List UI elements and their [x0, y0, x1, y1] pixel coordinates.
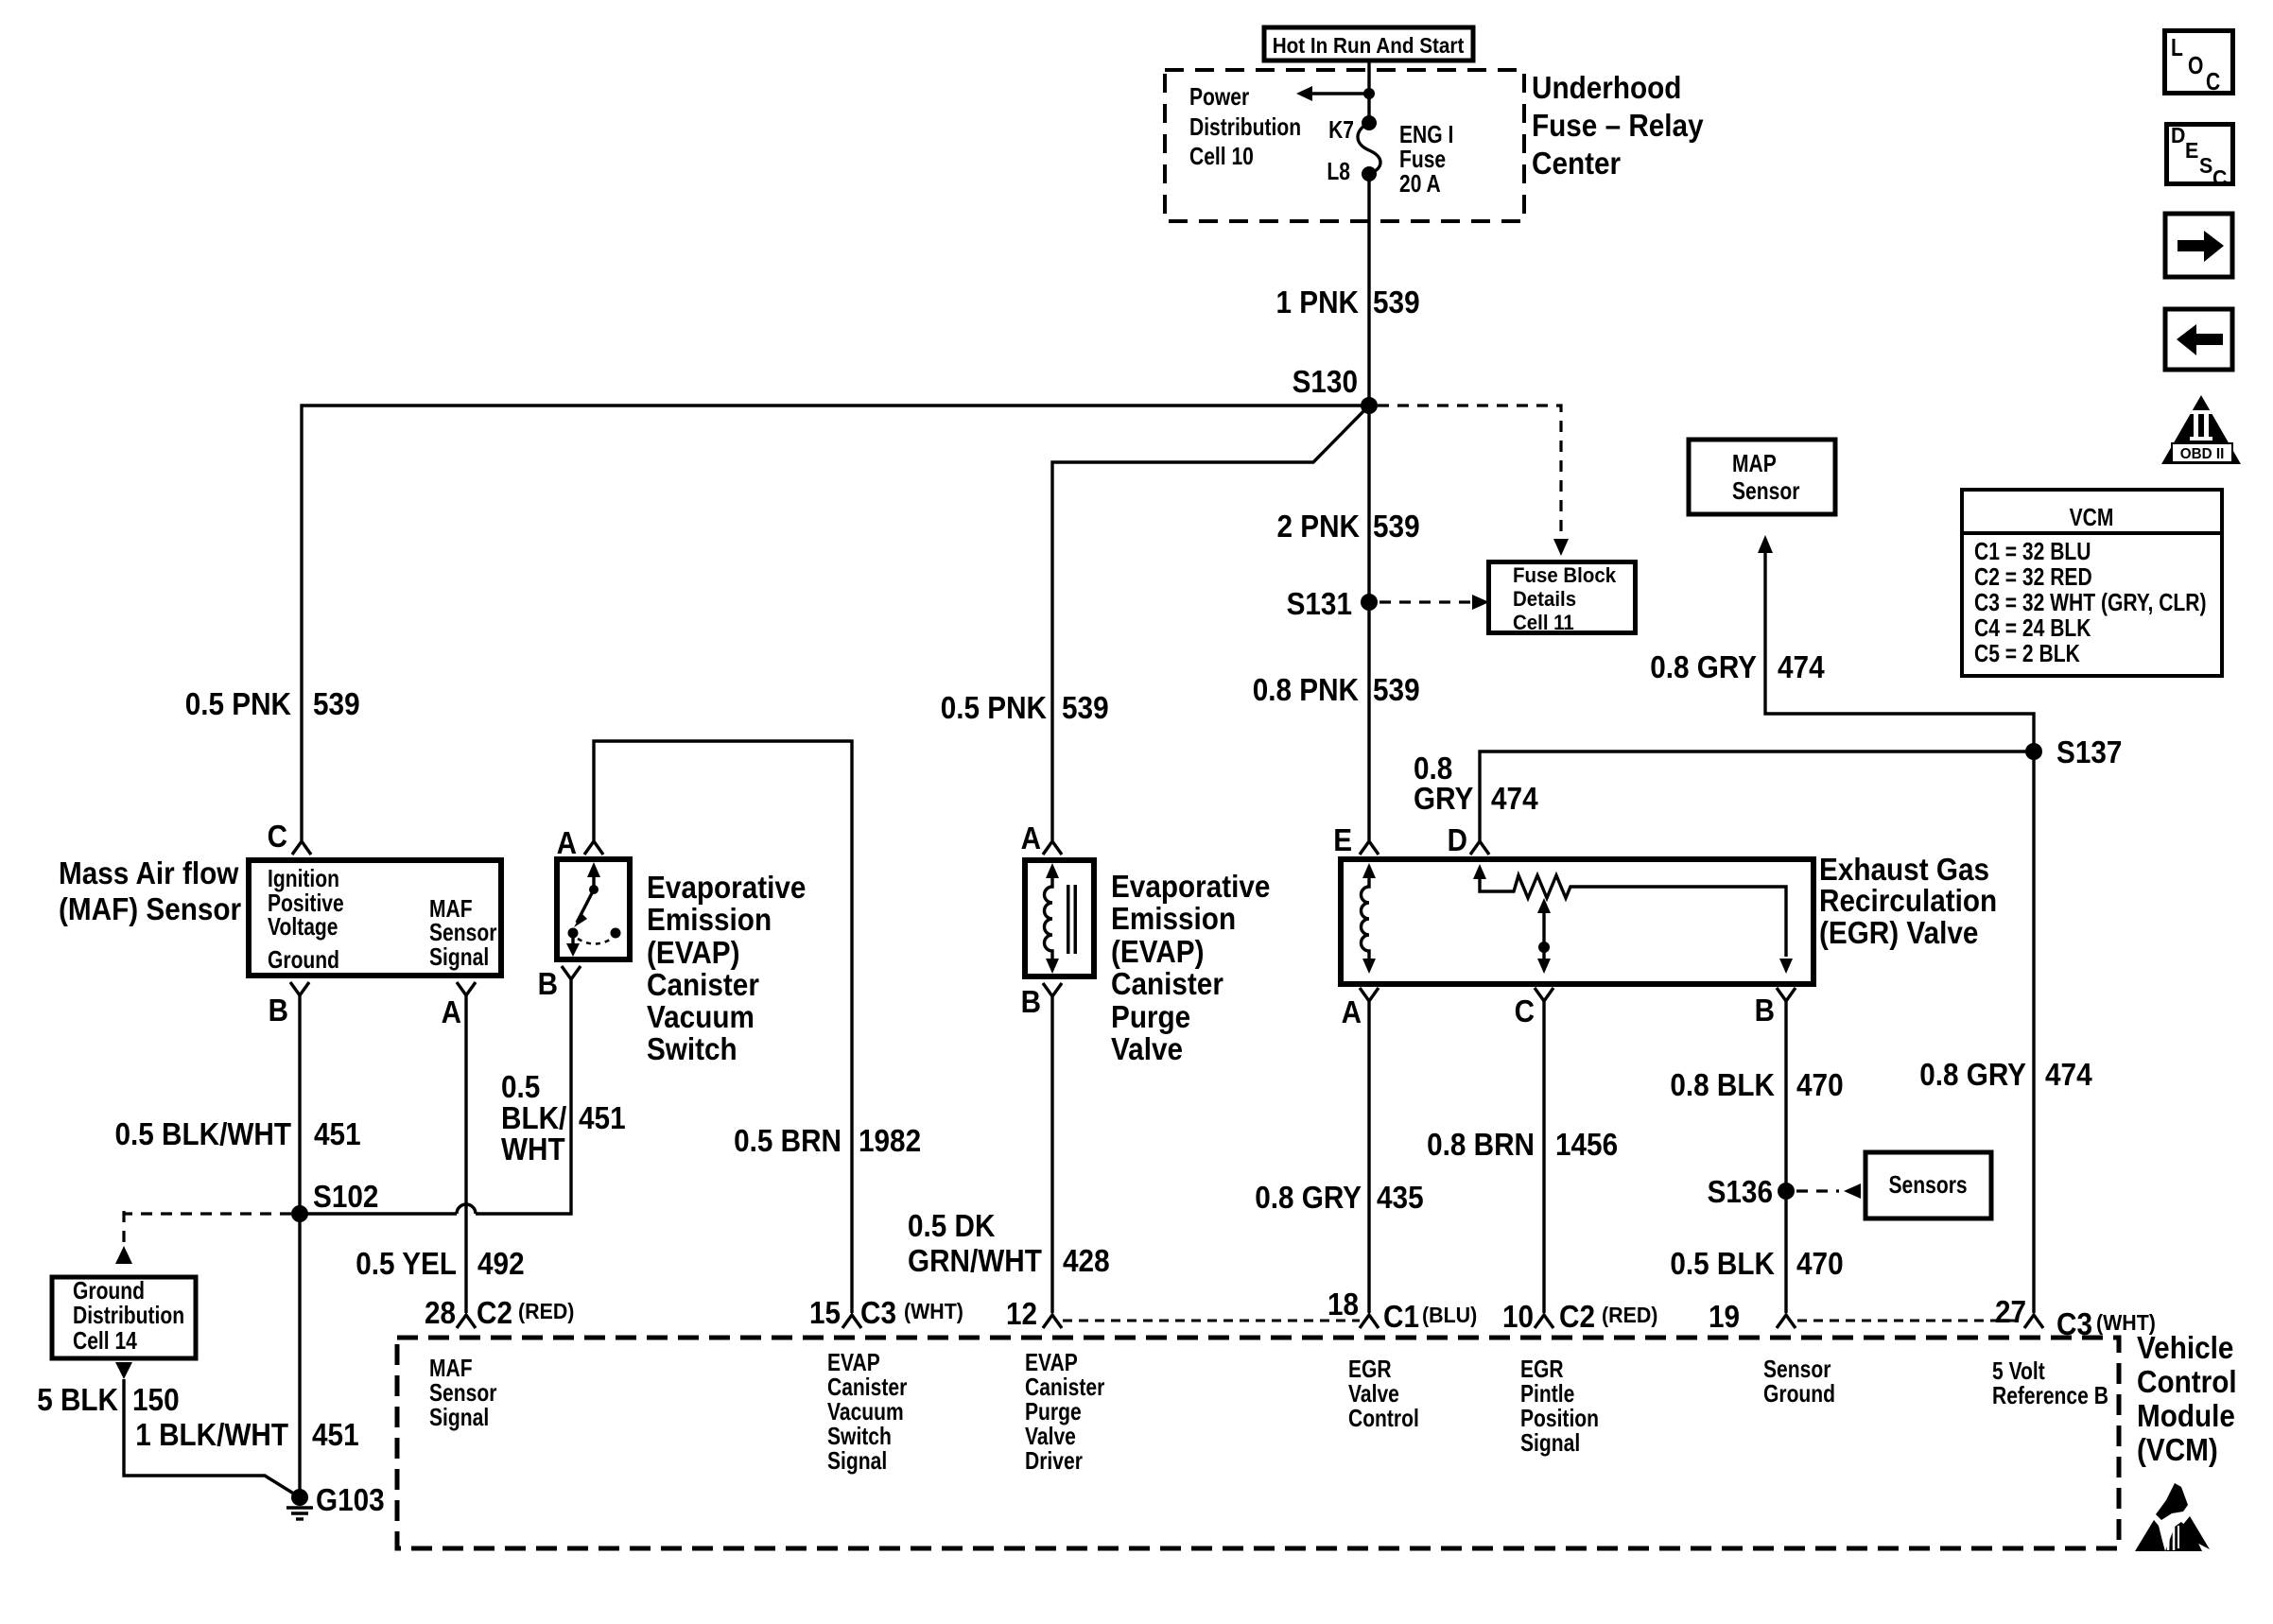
label Sensor Ground (VCM pin 19) — [1763, 1355, 1835, 1408]
svg-text:Canister: Canister — [1111, 966, 1223, 1001]
label 5 BLK 150 — [37, 1382, 179, 1417]
svg-text:(BLU): (BLU) — [1422, 1303, 1477, 1327]
svg-text:Cell 14: Cell 14 — [73, 1326, 137, 1355]
box Sensors — [1865, 1152, 1991, 1218]
label Power Distribution Cell 10 — [1189, 82, 1301, 170]
svg-text:B: B — [1755, 993, 1775, 1028]
label 0.5 BLK/WHT 451 — [115, 1116, 361, 1151]
svg-text:S136: S136 — [1708, 1174, 1773, 1209]
svg-text:Vehicle: Vehicle — [2137, 1330, 2233, 1365]
svg-text:474: 474 — [1778, 649, 1825, 684]
wire 0.5 BLK/WHT 451 from MAF B to S102 to G103 — [298, 995, 301, 1497]
pin 19 of VCM — [1709, 1299, 1796, 1334]
label 0.5 PNK 539 (MAF feed) — [185, 686, 360, 721]
wire from S130 diagonal to EVAP purge feed — [1052, 406, 1369, 840]
pin B of EGR valve — [1755, 988, 1796, 1028]
svg-text:C2: C2 — [1559, 1299, 1595, 1334]
EGR pintle position potentiometer — [1473, 864, 1793, 974]
svg-text:(MAF) Sensor: (MAF) Sensor — [59, 891, 241, 926]
label EGR Pintle Position Signal (VCM pin 10) — [1520, 1355, 1599, 1457]
svg-text:Underhood: Underhood — [1532, 70, 1681, 105]
svg-text:VCM: VCM — [2070, 503, 2114, 531]
svg-text:5 BLK: 5 BLK — [37, 1382, 118, 1417]
box Ground Distribution Cell 14 — [52, 1276, 196, 1358]
svg-text:0.5 BLK: 0.5 BLK — [1670, 1246, 1775, 1281]
svg-text:B: B — [1021, 984, 1041, 1019]
svg-text:27: 27 — [1995, 1294, 2026, 1329]
dashed arrow S130 to Fuse Block Details — [1378, 406, 1569, 556]
svg-text:(WHT): (WHT) — [904, 1299, 963, 1323]
label 0.5 BLK 470 — [1670, 1246, 1843, 1281]
svg-text:A: A — [1021, 821, 1041, 855]
svg-text:Sensors: Sensors — [1889, 1170, 1968, 1199]
svg-text:474: 474 — [2045, 1057, 2092, 1092]
purge valve solenoid coil — [1045, 863, 1078, 974]
svg-text:(VCM): (VCM) — [2137, 1432, 2218, 1467]
pin D of EGR valve — [1448, 822, 1489, 857]
label Evaporative Emission (EVAP) Canister Purge Valve — [1111, 869, 1270, 1066]
svg-text:539: 539 — [1373, 672, 1420, 707]
svg-text:451: 451 — [314, 1116, 361, 1151]
wire 0.8 GRY 435 from EGR A to VCM pin 18 — [1367, 1001, 1370, 1313]
wire from S130 left to MAF ignition feed — [302, 406, 1369, 840]
svg-text:1 PNK: 1 PNK — [1276, 285, 1360, 320]
label 2 PNK 539 — [1277, 509, 1420, 544]
label 0.5 BRN 1982 — [734, 1123, 921, 1158]
pin 27 C3 (WHT) of VCM — [1995, 1294, 2156, 1341]
svg-text:(RED): (RED) — [518, 1299, 574, 1323]
label 0.8 GRY 435 — [1255, 1180, 1423, 1215]
svg-text:Driver: Driver — [1025, 1446, 1083, 1475]
svg-text:Vacuum: Vacuum — [647, 999, 755, 1034]
svg-text:Cell 10: Cell 10 — [1189, 142, 1254, 170]
svg-text:0.5 BRN: 0.5 BRN — [734, 1123, 842, 1158]
svg-text:18: 18 — [1327, 1287, 1359, 1322]
svg-text:150: 150 — [132, 1382, 180, 1417]
label 0.8 BLK 470 — [1670, 1067, 1843, 1102]
box EVAP Canister Purge Valve — [1025, 860, 1094, 976]
wire from Hot In Run box down to fuse K7 — [1367, 60, 1370, 123]
svg-text:10: 10 — [1502, 1299, 1534, 1334]
pin C of EGR valve — [1515, 988, 1553, 1028]
svg-text:428: 428 — [1063, 1243, 1110, 1278]
svg-text:Ground: Ground — [268, 945, 339, 974]
wire 0.8 GRY 474 from S137 up to MAP Sensor — [1758, 535, 2034, 752]
pin 28 C2 (RED) of VCM — [425, 1295, 574, 1330]
label 0.5 YEL 492 — [356, 1246, 524, 1281]
svg-text:O: O — [2188, 51, 2203, 79]
svg-text:K7: K7 — [1328, 115, 1354, 144]
svg-text:451: 451 — [579, 1100, 626, 1135]
pin A of vacuum switch — [557, 825, 603, 860]
fuse ENG I 20 A (K7-L8) — [1358, 115, 1380, 181]
svg-text:S137: S137 — [2056, 734, 2122, 769]
pin B of MAF sensor — [269, 982, 309, 1028]
svg-text:Signal: Signal — [429, 942, 489, 971]
svg-text:0.5 PNK: 0.5 PNK — [941, 690, 1047, 725]
svg-text:C: C — [268, 819, 287, 854]
Underhood Fuse-Relay Center dashed box — [1165, 70, 1524, 221]
wire 0.8 BLK 470 from EGR B to S136 — [1784, 1001, 1787, 1313]
box "Hot In Run And Start" — [1264, 27, 1473, 60]
pin 18 C1 (BLU) of VCM — [1327, 1287, 1477, 1334]
svg-text:539: 539 — [1373, 285, 1420, 320]
svg-text:(EVAP): (EVAP) — [1111, 934, 1205, 969]
label 0.5 BLK/WHT 451 (switch B) — [501, 1069, 626, 1166]
icon DESC box — [2167, 123, 2233, 190]
svg-text:D: D — [2171, 123, 2185, 147]
wire 1 PNK 539 from fuse to S130 — [1367, 174, 1370, 406]
node S136 junction — [1778, 1183, 1795, 1200]
VCM internal dashed bus pin12-pin18 — [1063, 1320, 1360, 1322]
svg-text:1456: 1456 — [1555, 1127, 1618, 1162]
label 0.8 PNK 539 — [1253, 672, 1420, 707]
svg-text:12: 12 — [1006, 1296, 1037, 1331]
EGR potentiometer wiper — [1537, 898, 1551, 974]
label Exhaust Gas Recirculation (EGR) Valve — [1819, 852, 1997, 950]
label EGR Valve Control (VCM pin 18) — [1348, 1355, 1419, 1432]
node S137 junction — [2025, 743, 2042, 760]
svg-text:GRY: GRY — [1414, 781, 1473, 816]
pin 10 C2 (RED) of VCM — [1502, 1299, 1657, 1334]
label EVAP Canister Vacuum Switch Signal (VCM pin 15) — [827, 1348, 907, 1475]
svg-text:OBD II: OBD II — [2180, 446, 2225, 462]
svg-text:Details: Details — [1513, 587, 1576, 611]
svg-text:(EGR) Valve: (EGR) Valve — [1819, 915, 1978, 950]
svg-text:C1: C1 — [1383, 1299, 1419, 1334]
svg-text:0.8 BLK: 0.8 BLK — [1670, 1067, 1775, 1102]
svg-text:474: 474 — [1491, 781, 1538, 816]
svg-text:Fuse Block: Fuse Block — [1513, 563, 1617, 587]
svg-text:E: E — [2185, 138, 2198, 163]
svg-text:Cell 11: Cell 11 — [1513, 611, 1574, 634]
svg-text:0.8 GRY: 0.8 GRY — [1255, 1180, 1362, 1215]
svg-text:Sensor: Sensor — [1732, 476, 1799, 505]
wire 2 PNK 539 from S130 to S131 — [1367, 406, 1370, 602]
svg-text:S131: S131 — [1287, 586, 1352, 621]
svg-text:C3: C3 — [860, 1295, 896, 1330]
svg-text:0.5 YEL: 0.5 YEL — [356, 1246, 457, 1281]
box MAP Sensor — [1689, 440, 1835, 514]
pin A of purge valve — [1021, 821, 1062, 855]
wire 0.8 BRN 1456 from EGR C to VCM pin 10 — [1542, 1001, 1545, 1313]
label 0.8 GRY 474 (5 volt ref) — [1919, 1057, 2092, 1092]
wire S102 to vacuum switch B (hops over YEL wire) — [300, 979, 571, 1214]
svg-text:C3 = 32 WHT (GRY, CLR): C3 = 32 WHT (GRY, CLR) — [1974, 588, 2207, 616]
svg-text:28: 28 — [425, 1295, 456, 1330]
wire 0.8 PNK 539 from S131 to EGR pin E — [1367, 602, 1370, 842]
svg-text:Reference B: Reference B — [1992, 1381, 2108, 1409]
wire 0.8 GRY 474 from S137 down to VCM pin 27 — [2032, 752, 2035, 1313]
icon right-arrow box — [2165, 214, 2232, 277]
box VCM connector legend — [1962, 490, 2222, 676]
svg-text:Distribution: Distribution — [73, 1301, 184, 1329]
svg-text:0.5: 0.5 — [501, 1069, 540, 1104]
svg-text:Hot In Run And Start: Hot In Run And Start — [1273, 33, 1465, 58]
svg-text:Valve: Valve — [1111, 1031, 1183, 1066]
vacuum switch contacts and arrows — [566, 862, 621, 957]
svg-text:Evaporative: Evaporative — [1111, 869, 1270, 904]
node S102 junction — [291, 1205, 308, 1222]
svg-text:C5 = 2 BLK: C5 = 2 BLK — [1974, 639, 2080, 667]
svg-text:539: 539 — [313, 686, 360, 721]
svg-text:L8: L8 — [1327, 157, 1350, 185]
label EVAP Canister Purge Valve Driver (VCM pin 12) — [1025, 1348, 1104, 1475]
label ENG I Fuse 20 A — [1399, 120, 1453, 198]
svg-text:0.8 BRN: 0.8 BRN — [1427, 1127, 1535, 1162]
wire 0.5 YEL 492 from MAF A to VCM pin 28 — [464, 995, 467, 1313]
svg-text:D: D — [1448, 822, 1467, 857]
svg-text:(RED): (RED) — [1602, 1303, 1657, 1327]
label 1 BLK/WHT 451 — [135, 1417, 358, 1452]
svg-text:451: 451 — [312, 1417, 359, 1452]
svg-text:Purge: Purge — [1111, 999, 1190, 1034]
wire 0.5 DK GRN/WHT 428 from purge B to VCM pin 12 — [1050, 996, 1053, 1313]
svg-text:BLK/: BLK/ — [501, 1100, 566, 1135]
svg-text:0.5 BLK/WHT: 0.5 BLK/WHT — [115, 1116, 292, 1151]
svg-text:GRN/WHT: GRN/WHT — [908, 1243, 1042, 1278]
svg-text:B: B — [269, 993, 288, 1028]
svg-text:Control: Control — [1348, 1404, 1419, 1432]
svg-text:Ground: Ground — [1763, 1379, 1835, 1408]
pin E of EGR valve — [1333, 822, 1379, 857]
svg-text:Distribution: Distribution — [1189, 112, 1301, 141]
svg-text:A: A — [557, 825, 577, 860]
svg-text:1982: 1982 — [859, 1123, 921, 1158]
svg-text:15: 15 — [809, 1295, 841, 1330]
label 0.5 DK GRN/WHT 428 — [908, 1208, 1110, 1278]
wire arrow to Power Distribution — [1296, 86, 1375, 101]
wire 0.5 BRN 1982 from switch A to VCM pin 15 — [594, 741, 852, 1313]
box Mass Air Flow (MAF) Sensor — [249, 860, 501, 976]
label 0.8 BRN 1456 — [1427, 1127, 1618, 1162]
svg-text:19: 19 — [1709, 1299, 1740, 1334]
pin A of EGR valve — [1342, 988, 1379, 1029]
svg-text:C2: C2 — [477, 1295, 512, 1330]
svg-text:C2 = 32 RED: C2 = 32 RED — [1974, 562, 2092, 591]
svg-text:A: A — [1342, 994, 1362, 1029]
svg-text:E: E — [1333, 822, 1352, 857]
label 0.8 GRY 474 (EGR D) — [1414, 751, 1538, 816]
label 0.5 PNK 539 (purge feed) — [941, 690, 1109, 725]
svg-text:C3: C3 — [2056, 1306, 2092, 1341]
EGR solenoid coil — [1362, 863, 1377, 974]
svg-text:WHT: WHT — [501, 1132, 565, 1166]
label 1 PNK 539 — [1276, 285, 1420, 320]
ground G103 — [286, 1482, 385, 1519]
label MAF Sensor Signal (VCM pin 28) — [429, 1354, 496, 1431]
icon left-arrow box — [2165, 309, 2232, 370]
svg-text:0.8 GRY: 0.8 GRY — [1919, 1057, 2026, 1092]
svg-text:Signal: Signal — [827, 1446, 887, 1475]
svg-text:2 PNK: 2 PNK — [1277, 509, 1361, 544]
svg-text:435: 435 — [1377, 1180, 1424, 1215]
label Vehicle Control Module (VCM) — [2137, 1330, 2237, 1467]
svg-text:B: B — [538, 966, 558, 1001]
svg-text:C4 = 24 BLK: C4 = 24 BLK — [1974, 613, 2091, 642]
svg-text:0.5 DK: 0.5 DK — [908, 1208, 996, 1243]
svg-text:Power: Power — [1189, 82, 1249, 111]
svg-text:539: 539 — [1062, 690, 1109, 725]
pin 12 of VCM — [1006, 1296, 1062, 1331]
svg-text:C1 = 32 BLU: C1 = 32 BLU — [1974, 537, 2091, 565]
svg-text:Canister: Canister — [647, 967, 759, 1002]
svg-text:G103: G103 — [316, 1482, 385, 1517]
svg-text:Voltage: Voltage — [268, 912, 338, 941]
svg-text:Mass Air flow: Mass Air flow — [59, 855, 239, 890]
svg-text:470: 470 — [1796, 1246, 1844, 1281]
box EVAP Canister Vacuum Switch — [557, 859, 630, 959]
dashed arrow S136 to Sensors — [1796, 1183, 1861, 1199]
label 0.8 GRY 474 (MAP feed) — [1650, 649, 1825, 684]
pin C of MAF sensor — [268, 819, 311, 855]
label Mass Air flow (MAF) Sensor — [59, 855, 241, 926]
svg-text:1 BLK/WHT: 1 BLK/WHT — [135, 1417, 288, 1452]
VCM internal dashed bus pin19-pin27 — [1797, 1320, 2022, 1322]
icon LOC box — [2165, 31, 2233, 96]
svg-text:0.8 GRY: 0.8 GRY — [1650, 649, 1757, 684]
svg-text:Emission: Emission — [647, 902, 772, 937]
svg-text:S130: S130 — [1293, 364, 1358, 399]
box Fuse Block Details Cell 11 — [1489, 562, 1636, 635]
label Evaporative Emission (EVAP) Canister Vacuum Switch — [647, 870, 806, 1066]
svg-text:20 A: 20 A — [1399, 169, 1441, 198]
svg-text:C: C — [1515, 993, 1535, 1028]
svg-text:Recirculation: Recirculation — [1819, 883, 1997, 918]
wire 0.8 GRY 474 from EGR pin D to S137 — [1480, 752, 2034, 842]
svg-text:Module: Module — [2137, 1398, 2235, 1433]
svg-text:Exhaust Gas: Exhaust Gas — [1819, 852, 1989, 887]
dashed arrow S131 to Fuse Block Details — [1379, 595, 1489, 610]
pin B of purge valve — [1021, 983, 1062, 1019]
Vehicle Control Module dashed box — [397, 1338, 2119, 1548]
wire 5 BLK 150 from Ground Distribution to G103 — [115, 1362, 300, 1497]
svg-text:Signal: Signal — [1520, 1428, 1580, 1457]
svg-text:Center: Center — [1532, 146, 1621, 181]
svg-text:Switch: Switch — [647, 1031, 737, 1066]
svg-text:539: 539 — [1373, 509, 1420, 544]
svg-text:MAP: MAP — [1732, 449, 1777, 477]
svg-text:(EVAP): (EVAP) — [647, 935, 740, 970]
svg-text:Emission: Emission — [1111, 901, 1236, 936]
svg-text:0.8 PNK: 0.8 PNK — [1253, 672, 1359, 707]
label 5 Volt Reference B (VCM pin 27) — [1992, 1356, 2108, 1409]
svg-text:Control: Control — [2137, 1364, 2237, 1399]
dashed arrow S102 to Ground Distribution — [115, 1211, 291, 1264]
pin 15 C3 (WHT) of VCM — [809, 1295, 963, 1330]
svg-text:C: C — [2206, 67, 2220, 95]
svg-text:S102: S102 — [313, 1179, 378, 1214]
svg-text:Fuse – Relay: Fuse – Relay — [1532, 108, 1704, 143]
icon ESD warning symbol — [2135, 1483, 2210, 1551]
svg-text:Evaporative: Evaporative — [647, 870, 806, 905]
svg-text:492: 492 — [477, 1246, 525, 1281]
box EGR Valve — [1341, 859, 1813, 984]
icon OBD II triangle — [2161, 395, 2241, 464]
node S131 junction — [1361, 594, 1378, 611]
svg-text:0.5 PNK: 0.5 PNK — [185, 686, 291, 721]
svg-text:470: 470 — [1796, 1067, 1844, 1102]
node S130 junction — [1361, 397, 1378, 414]
svg-text:A: A — [442, 994, 461, 1029]
pin B of vacuum switch — [538, 966, 581, 1001]
svg-text:C: C — [2212, 165, 2227, 190]
svg-text:L: L — [2171, 33, 2183, 61]
label Underhood Fuse-Relay Center — [1532, 70, 1704, 181]
pin A of MAF sensor — [442, 982, 476, 1029]
svg-text:S: S — [2199, 153, 2212, 178]
svg-text:Signal: Signal — [429, 1403, 489, 1431]
